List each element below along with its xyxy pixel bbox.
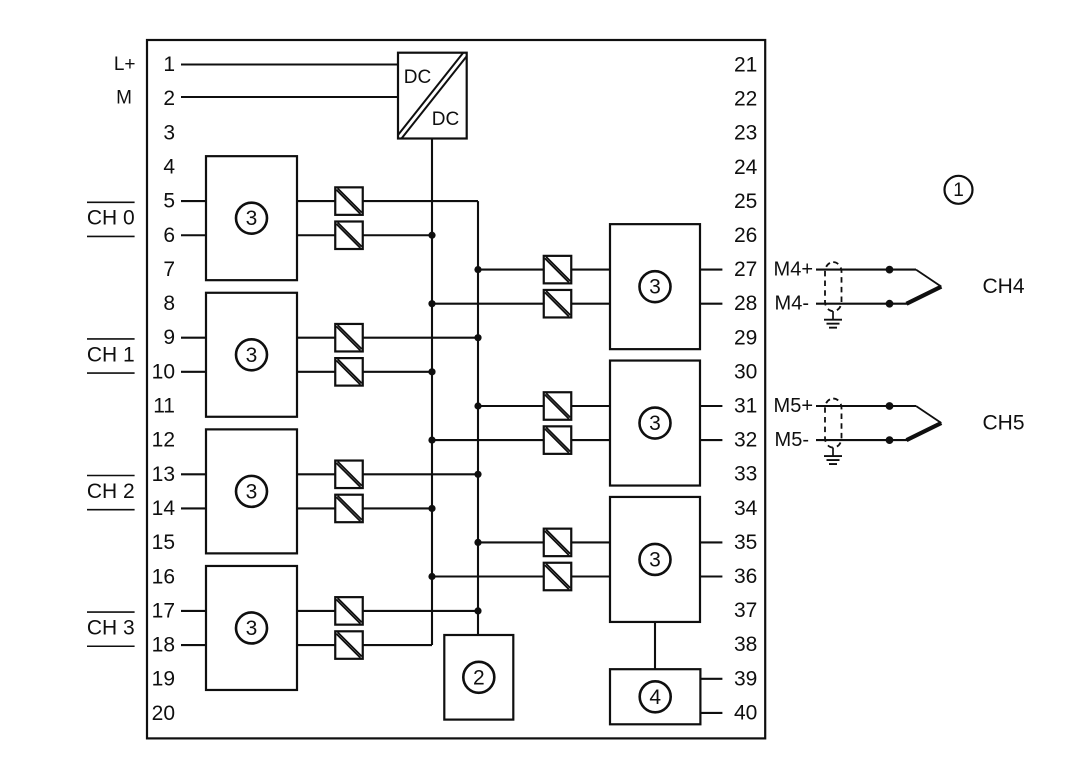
isolation barrier pin 17 — [335, 597, 363, 625]
svg-text:34: 34 — [734, 497, 758, 520]
wire M5+ — [816, 405, 916, 407]
wire stub pin 6 — [181, 234, 206, 236]
svg-text:3: 3 — [246, 480, 258, 503]
svg-text:27: 27 — [734, 258, 757, 281]
svg-text:10: 10 — [152, 360, 175, 383]
isolation barrier pin 18 — [335, 631, 363, 659]
output block 3 #2 — [610, 361, 700, 486]
junction bus/pin 14 — [428, 505, 435, 512]
wire stub pin 17 — [181, 610, 206, 612]
svg-text:3: 3 — [163, 121, 175, 144]
svg-text:3: 3 — [246, 207, 258, 230]
connector chevron CH5 — [907, 406, 942, 440]
wire M5- — [816, 439, 909, 441]
wire pin 6 line to bus1 — [297, 234, 432, 236]
junction bus/pin 9 — [474, 334, 481, 341]
wire pin2 to DC/DC — [181, 96, 398, 98]
wire pin 5 line to bus2 — [297, 200, 478, 202]
wire bus2 to pin 35 input — [478, 541, 610, 543]
wire stub pin 27 — [700, 269, 722, 271]
svg-text:33: 33 — [734, 463, 757, 486]
channel label CH 3 — [87, 612, 135, 646]
svg-text:25: 25 — [734, 190, 757, 213]
wire pin1 to DC/DC — [181, 63, 398, 65]
isolation barrier pin 31 — [544, 392, 572, 420]
svg-text:35: 35 — [734, 531, 757, 554]
svg-text:20: 20 — [152, 702, 175, 725]
callout 1 — [945, 176, 973, 204]
DC/DC converter — [398, 53, 467, 139]
svg-text:1: 1 — [163, 53, 175, 76]
shield ground CH4 — [824, 311, 842, 328]
junction bus/pin 10 — [428, 368, 435, 375]
svg-text:CH5: CH5 — [983, 412, 1025, 435]
channel label CH 0 — [87, 202, 135, 236]
wire M4+ — [816, 269, 916, 271]
svg-text:23: 23 — [734, 122, 757, 145]
wire dot M4+ — [886, 266, 894, 274]
svg-text:CH 1: CH 1 — [87, 343, 135, 366]
wire pin 13 line to bus2 — [297, 473, 478, 475]
isolation barrier pin 27 — [544, 256, 572, 284]
svg-text:28: 28 — [734, 292, 757, 315]
wire dot M5- — [886, 436, 894, 444]
svg-text:21: 21 — [734, 54, 757, 77]
wire stub pin 39 — [700, 678, 722, 680]
wire pin 9 line to bus2 — [297, 337, 478, 339]
wire block3 to block 4 — [654, 622, 656, 669]
wire stub pin 36 — [700, 575, 722, 577]
wire pin 18 line to bus1 — [297, 644, 432, 646]
svg-text:8: 8 — [163, 292, 175, 315]
svg-text:17: 17 — [152, 599, 175, 622]
svg-text:DC: DC — [432, 109, 459, 130]
svg-text:36: 36 — [734, 565, 757, 588]
wire stub pin 28 — [700, 303, 722, 305]
wire stub pin 31 — [700, 405, 722, 407]
input block 3 CH1 — [206, 293, 297, 417]
channel label CH 2 — [87, 476, 135, 510]
junction bus/pin 35 — [474, 539, 481, 546]
isolation barrier pin 5 — [335, 187, 363, 215]
svg-text:4: 4 — [649, 686, 661, 709]
junction bus/pin 17 — [474, 607, 481, 614]
svg-text:9: 9 — [163, 326, 175, 349]
svg-text:DC: DC — [404, 67, 431, 88]
bus2 to block 2 — [477, 201, 479, 635]
input block 3 CH3 — [206, 566, 297, 690]
block 2 — [444, 635, 513, 720]
channel label CH 1 — [87, 339, 135, 373]
svg-text:5: 5 — [163, 190, 175, 213]
wire bus2 to pin 27 input — [478, 269, 610, 271]
junction bus/pin 27 — [474, 266, 481, 273]
svg-text:7: 7 — [163, 258, 175, 281]
module border — [147, 40, 765, 738]
block 4 — [610, 669, 700, 724]
wire M4- — [816, 303, 909, 305]
isolation barrier pin 28 — [544, 290, 572, 318]
svg-text:3: 3 — [246, 617, 258, 640]
isolation barrier pin 35 — [544, 529, 572, 557]
wire dot M4- — [886, 300, 894, 308]
svg-text:6: 6 — [163, 224, 175, 247]
junction bus/pin 28 — [428, 300, 435, 307]
svg-text:CH 2: CH 2 — [87, 480, 135, 503]
input block 3 CH2 — [206, 429, 297, 553]
svg-text:39: 39 — [734, 667, 757, 690]
junction bus/pin 13 — [474, 471, 481, 478]
input block 3 CH0 — [206, 156, 297, 280]
wire stub pin 40 — [700, 712, 722, 714]
svg-text:M5+: M5+ — [774, 395, 813, 417]
svg-text:38: 38 — [734, 633, 757, 656]
svg-text:11: 11 — [153, 395, 175, 418]
isolation barrier pin 10 — [335, 358, 363, 386]
svg-text:2: 2 — [163, 87, 175, 110]
svg-text:26: 26 — [734, 224, 757, 247]
wire bus1 to pin 28 input — [432, 303, 610, 305]
wire stub pin 13 — [181, 473, 206, 475]
svg-text:M: M — [116, 88, 132, 109]
svg-text:37: 37 — [734, 599, 757, 622]
output block 3 #1 — [610, 224, 700, 349]
shield ground CH5 — [824, 448, 842, 465]
wire bus1 to pin 32 input — [432, 439, 610, 441]
svg-text:15: 15 — [152, 531, 175, 554]
cable shield CH4 — [825, 262, 842, 311]
wire stub pin 14 — [181, 507, 206, 509]
svg-text:3: 3 — [649, 412, 661, 435]
svg-text:3: 3 — [649, 276, 661, 299]
svg-text:14: 14 — [152, 497, 176, 520]
wire dot M5+ — [886, 402, 894, 410]
junction bus/pin 36 — [428, 573, 435, 580]
svg-text:40: 40 — [734, 701, 757, 724]
svg-text:2: 2 — [473, 666, 485, 689]
svg-text:4: 4 — [163, 155, 175, 178]
svg-text:13: 13 — [152, 463, 175, 486]
svg-text:1: 1 — [953, 180, 964, 201]
output block 3 #3 — [610, 497, 700, 622]
wire stub pin 5 — [181, 200, 206, 202]
bus1 from DC/DC — [431, 139, 433, 646]
isolation barrier pin 9 — [335, 324, 363, 352]
wire bus2 to pin 31 input — [478, 405, 610, 407]
wire stub pin 10 — [181, 371, 206, 373]
svg-text:12: 12 — [152, 429, 175, 452]
connector chevron CH4 — [907, 270, 942, 304]
svg-text:22: 22 — [734, 88, 757, 111]
isolation barrier pin 13 — [335, 461, 363, 489]
svg-text:29: 29 — [734, 326, 757, 349]
svg-text:30: 30 — [734, 360, 757, 383]
isolation barrier pin 32 — [544, 426, 572, 454]
svg-text:CH4: CH4 — [983, 275, 1025, 298]
wire stub pin 18 — [181, 644, 206, 646]
wire pin 14 line to bus1 — [297, 507, 432, 509]
isolation barrier pin 36 — [544, 563, 572, 591]
svg-text:L+: L+ — [114, 54, 136, 75]
svg-text:18: 18 — [152, 634, 175, 657]
svg-text:M4-: M4- — [775, 293, 809, 315]
svg-text:M5-: M5- — [775, 429, 809, 451]
svg-text:16: 16 — [152, 565, 175, 588]
isolation barrier pin 6 — [335, 222, 363, 250]
svg-text:M4+: M4+ — [774, 259, 813, 281]
svg-text:32: 32 — [734, 429, 757, 452]
svg-text:19: 19 — [152, 668, 175, 691]
cable shield CH5 — [825, 399, 842, 448]
wire pin 17 line to bus2 — [297, 610, 478, 612]
svg-text:CH 3: CH 3 — [87, 616, 135, 639]
wire stub pin 35 — [700, 541, 722, 543]
wire stub pin 32 — [700, 439, 722, 441]
junction bus/pin 31 — [474, 402, 481, 409]
wire pin 10 line to bus1 — [297, 371, 432, 373]
svg-text:3: 3 — [649, 548, 661, 571]
junction bus/pin 6 — [428, 232, 435, 239]
junction bus/pin 32 — [428, 437, 435, 444]
svg-text:31: 31 — [734, 395, 757, 418]
isolation barrier pin 14 — [335, 495, 363, 523]
svg-text:24: 24 — [734, 156, 758, 179]
svg-text:CH 0: CH 0 — [87, 207, 135, 230]
wire bus1 to pin 36 input — [432, 575, 610, 577]
svg-text:3: 3 — [246, 344, 258, 367]
wire stub pin 9 — [181, 337, 206, 339]
